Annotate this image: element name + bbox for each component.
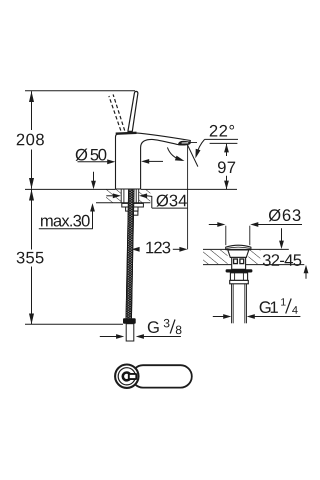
label 22° (210, 125, 234, 137)
arrowhead 208 top (29, 91, 34, 102)
max.30 lower arrow (92, 211, 94, 229)
drain deck hatch left (203, 250, 228, 264)
arrowhead 355 top (29, 189, 34, 200)
label 208 (17, 134, 44, 146)
handle pivot dark ring (123, 373, 131, 381)
drain tailpipe (231, 284, 233, 324)
max.30 underline (39, 228, 93, 230)
dimension Ø34 left arrow (106, 195, 113, 197)
shank wall left (123, 189, 125, 203)
Ø63 extension line left (225, 226, 227, 246)
hole edge right (138, 189, 140, 203)
Ø50 dimension left arrow (78, 161, 109, 163)
dimension line 208/355 (31, 91, 33, 324)
drain shoulder (230, 280, 249, 283)
drain body (232, 257, 246, 269)
handle base ring (118, 368, 135, 385)
flexible hose braid (126, 189, 135, 318)
Ø50 dimension right arrow (141, 159, 149, 164)
bottom reference line (25, 323, 123, 325)
spout axis vertical line (187, 145, 189, 249)
label G3/8 (148, 321, 159, 333)
hose crimp nut (123, 318, 136, 324)
G3/8 right arrow and underline (136, 334, 144, 339)
label 97 (218, 161, 235, 173)
label Ø50 (76, 149, 107, 161)
dimension Ø34 right arrow (139, 193, 147, 198)
32-45 upper arrow (281, 228, 283, 241)
drain locknut (226, 269, 253, 272)
faucet top cap edge (116, 132, 137, 135)
hole edge left (120, 189, 122, 203)
lever dashed position (109, 96, 121, 131)
deck bottom line (96, 202, 150, 204)
dimension line 97 (226, 144, 228, 156)
drain window left (234, 259, 238, 264)
dimension 123 right arrow (173, 248, 180, 250)
22 degree leader arc (196, 139, 204, 155)
label 123 (146, 242, 170, 254)
lever solid (128, 91, 138, 131)
top reference line (25, 90, 135, 92)
deck hatch right (139, 190, 151, 203)
pop-up flange cap (226, 245, 251, 249)
arrowhead 355 bottom (29, 314, 34, 325)
mounting washer (122, 203, 144, 207)
Ø63 extension line right (249, 226, 251, 246)
handle base outer circle (115, 365, 138, 388)
Ø63 dimension line (209, 224, 218, 226)
Ø34 label tick (151, 196, 153, 208)
dimension 123 left arrow (132, 247, 140, 252)
Ø34 label underline (152, 207, 188, 209)
hose nipple G3/8 (126, 324, 134, 341)
aerator at spout tip (178, 141, 190, 145)
label Ø63 (269, 209, 301, 221)
drain deck bottom line (203, 264, 304, 266)
handle pivot stub (129, 374, 137, 379)
drain window right (240, 259, 244, 264)
handle arm (132, 365, 192, 387)
drain body neck (228, 250, 249, 258)
22 degree label underline (205, 138, 238, 140)
drain deck top line (203, 248, 289, 250)
deck top line left (25, 188, 116, 190)
mounting nut (126, 207, 138, 211)
G1 1/4 left arrow (213, 316, 224, 318)
mounting nut tab (132, 211, 138, 215)
label 32-45 (263, 254, 301, 266)
label G1 1/4 (260, 301, 278, 313)
drain hex section (230, 273, 247, 281)
max.30 upper arrow (93, 172, 95, 181)
G1 1/4 right arrow and underline (247, 314, 255, 319)
label 355 (17, 252, 44, 264)
32-45 lower arrow (305, 273, 307, 279)
stream angle diagonal (187, 145, 198, 167)
label max.30 (41, 215, 90, 227)
label Ø34 (156, 194, 186, 206)
faucet body (116, 133, 191, 189)
97 top extension line (210, 142, 238, 144)
arrowhead 208 bottom (29, 178, 34, 189)
shank wall right (135, 189, 137, 203)
aerator tail line (191, 142, 197, 144)
swivel arc left (167, 147, 181, 160)
G3/8 left arrow (100, 336, 117, 338)
deck top line right (141, 188, 237, 190)
deck hatch left (106, 190, 121, 203)
drain deck hatch right (248, 250, 260, 264)
